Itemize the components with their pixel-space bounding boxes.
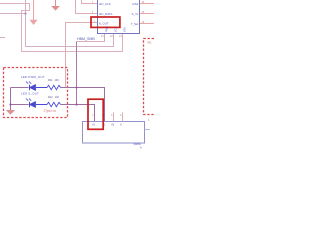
LED D1 (26, 82, 35, 91)
svg-text:A2: A2 (111, 124, 115, 127)
wire off-page stub left (0, 37, 5, 39)
highlight box around K_OUT (91, 17, 120, 27)
svg-text:S_Tx: S_Tx (132, 12, 139, 16)
svg-text:VSS: VSS (123, 27, 126, 32)
wire right pin S3 of U1 (140, 23, 155, 25)
pin stub right of U2 (145, 129, 151, 131)
svg-text:I2C_DATA: I2C_DATA (99, 12, 112, 16)
svg-text:SCL: SCL (114, 27, 117, 32)
svg-text:21: 21 (101, 35, 104, 38)
svg-text:A: A (140, 147, 142, 150)
svg-text:HBM_SMB: HBM_SMB (77, 37, 95, 41)
svg-text:IN: IN (93, 124, 96, 127)
svg-text:PWM: PWM (105, 26, 108, 32)
svg-text:T_Sel: T_Sel (131, 22, 139, 26)
svg-text:R11 100: R11 100 (48, 79, 59, 82)
dashed Option box (LED area) (4, 68, 68, 118)
component U1 (top controller box, clipped at top) (98, 0, 140, 34)
svg-text:23: 23 (119, 35, 122, 38)
svg-text:Option: Option (44, 108, 57, 113)
wire ground stem (10, 88, 12, 111)
svg-text:22: 22 (110, 35, 113, 38)
wire net SCL_BUS (second zigzag to bottom pin of U1) (0, 0, 114, 47)
svg-text:S8050: S8050 (134, 143, 142, 146)
wire I2C_DATA pin 2 of U1 (76, 0, 98, 14)
ground arrow (6, 110, 15, 115)
svg-text:1: 1 (148, 118, 150, 121)
power arrow A1 (31, 0, 37, 24)
resistor R11 (47, 85, 61, 89)
dashed option box top right (144, 39, 155, 115)
wire K_OUT pin 3 of U1 down to LED row 1 (66, 23, 98, 88)
pin stub 3 of U2 (113, 113, 115, 122)
svg-text:4: 4 (120, 114, 122, 117)
wire LED row 2 middle (36, 104, 47, 106)
resistor R12 (47, 102, 61, 106)
svg-text:1: 1 (92, 114, 94, 117)
svg-text:I2S4: I2S4 (132, 2, 138, 6)
wire right pin S1 of U1 (140, 3, 155, 5)
wire LED row 1 left (11, 87, 29, 89)
svg-text:R12 100: R12 100 (48, 96, 59, 99)
junction ground / row 2 (9, 103, 11, 105)
svg-text:K: K (120, 124, 122, 127)
junction HBM on row 2 (75, 103, 77, 105)
svg-text:LED S_OUT: LED S_OUT (21, 92, 39, 96)
pin stub 4 of U2 (122, 113, 124, 122)
wire net SDA_BUS (upper-left zigzag to bottom pin of U1) (0, 4, 123, 52)
wire LED row 2 to U2 pin 1 (61, 105, 95, 122)
svg-text:LED PWM_OUT: LED PWM_OUT (21, 75, 45, 79)
component U2 (bottom box) (83, 122, 145, 144)
LED D2 (26, 99, 35, 108)
wire right pin S2 of U1 (140, 13, 155, 15)
wire I2C_CLK pin 1 of U1 (82, 0, 98, 4)
junction on SCL_BUS (24, 12, 26, 14)
wire HBM_SMB from bottom pin of U1 (77, 34, 105, 42)
wire LED row 1 to U2 pin (61, 88, 105, 122)
svg-text:3: 3 (111, 114, 113, 117)
power arrow A2 (52, 0, 58, 10)
highlight box around U2 pin 1 (88, 99, 103, 129)
svg-text:R2: R2 (148, 40, 152, 44)
wire HBM_SMB vertical drop to LED row 2 (76, 42, 78, 105)
wire LED row 1 middle (36, 87, 47, 89)
svg-text:I2C_CLK: I2C_CLK (99, 2, 111, 6)
svg-text:K_OUT: K_OUT (99, 21, 109, 25)
junction row1 / HBM (76, 87, 78, 89)
wire LED row 2 left (11, 104, 29, 106)
